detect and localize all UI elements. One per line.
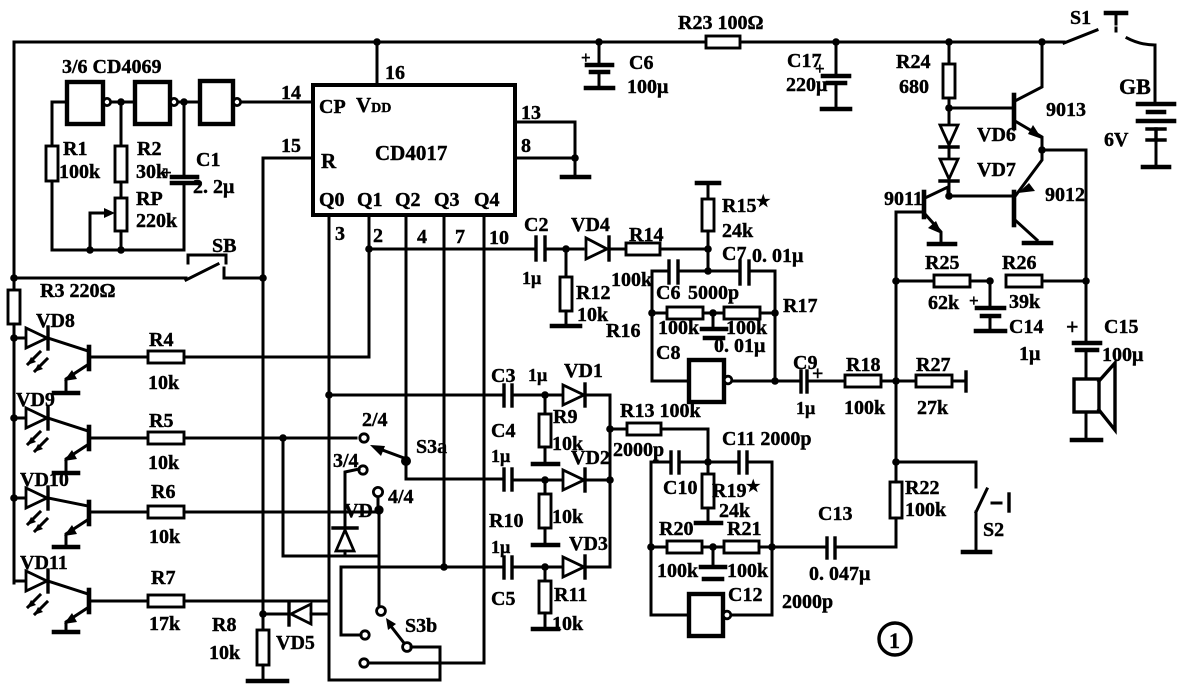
svg-text:VD1: VD1 <box>564 360 603 382</box>
transistor 9011 <box>884 187 955 244</box>
svg-text:6V: 6V <box>1104 129 1129 151</box>
svg-text:C4: C4 <box>491 420 515 442</box>
resistor R24 <box>945 38 953 46</box>
svg-text:220μ: 220μ <box>786 74 828 96</box>
svg-text:R4: R4 <box>149 329 173 351</box>
twin-T 2 top line <box>651 461 668 464</box>
svg-text:VD9: VD9 <box>16 389 55 411</box>
capacitor C10 <box>669 452 672 473</box>
wire C4 line capacitor C4 <box>502 469 505 490</box>
twin-T2 left edge <box>650 462 653 615</box>
svg-text:C3: C3 <box>491 365 515 387</box>
wire C5 line <box>341 566 501 569</box>
wire Q2 column pin 4 <box>406 215 502 479</box>
svg-text:24k: 24k <box>722 220 754 242</box>
node twin-T2 top <box>704 458 712 466</box>
svg-text:1: 1 <box>889 628 900 653</box>
resistor R8 <box>262 614 265 630</box>
svg-text:VD4: VD4 <box>571 214 610 236</box>
svg-text:+: + <box>1066 314 1079 339</box>
diode VD1 <box>563 385 584 405</box>
svg-text:16: 16 <box>385 62 405 84</box>
svg-text:+: + <box>581 48 591 67</box>
svg-text:R14: R14 <box>629 224 663 246</box>
diode VD6 <box>948 108 951 125</box>
svg-text:0. 01μ: 0. 01μ <box>714 335 766 357</box>
svg-text:Q1: Q1 <box>357 189 383 211</box>
svg-text:17k: 17k <box>149 613 181 635</box>
svg-text:+: + <box>162 163 172 182</box>
wire top supply rail <box>14 41 706 44</box>
capacitor C9 <box>775 380 798 383</box>
resistor R21 <box>702 546 724 549</box>
svg-text:2: 2 <box>373 225 383 247</box>
svg-text:R22: R22 <box>905 477 939 499</box>
node inverter1 output <box>117 98 125 106</box>
resistor R2 <box>120 102 123 146</box>
svg-text:S1: S1 <box>1070 7 1091 29</box>
node twin-T2 middle <box>709 543 717 551</box>
diode VD4 <box>586 238 607 259</box>
wire C2 line <box>369 248 533 251</box>
wire R24 to 9013 base <box>949 107 1012 110</box>
diode VD3 <box>563 557 584 577</box>
svg-text:1μ: 1μ <box>796 398 815 418</box>
node R13 tap <box>606 425 614 433</box>
twin-T1 left edge <box>651 271 654 381</box>
svg-text:+: + <box>969 291 979 310</box>
diode VD5 <box>259 603 329 654</box>
transistor Q-VD9 <box>48 418 89 473</box>
figure number 1 <box>879 623 911 655</box>
diode VD <box>333 526 357 529</box>
wire Q1 column pin 2 <box>368 215 371 357</box>
svg-text:C11 2000p: C11 2000p <box>722 428 811 450</box>
svg-text:S2: S2 <box>983 519 1004 541</box>
svg-text:VD6: VD6 <box>977 124 1016 146</box>
svg-text:R17: R17 <box>783 295 817 317</box>
svg-text:1μ: 1μ <box>522 268 541 288</box>
pin 16 Vdd wire <box>376 42 379 85</box>
wire inverter3 output to CP pin 14 <box>241 101 313 104</box>
wire VD7 to 9012 base <box>949 195 1013 198</box>
svg-text:4/4: 4/4 <box>388 486 414 508</box>
resistor R13 <box>610 428 627 431</box>
svg-text:5000p: 5000p <box>688 282 739 304</box>
wire top rail right of R23 <box>740 41 1064 44</box>
svg-text:R19★: R19★ <box>712 479 760 502</box>
svg-text:VD7: VD7 <box>977 159 1016 181</box>
capacitor C1 <box>183 102 186 176</box>
node RP bottom <box>117 246 125 254</box>
pin 13 wire <box>515 122 575 158</box>
inverter amp U2a <box>689 360 724 402</box>
node Q3 to C5 <box>440 563 448 571</box>
svg-text:R5: R5 <box>149 410 173 432</box>
svg-text:VDD: VDD <box>356 93 391 117</box>
node Q0 to C3 line <box>325 391 333 399</box>
capacitor C11 <box>737 452 740 473</box>
LED VD11 <box>14 552 68 615</box>
node pin15-SB <box>259 274 267 282</box>
resistor R23 <box>706 36 740 48</box>
resistor R15 <box>697 183 770 271</box>
capacitor C6 5000p <box>667 261 670 283</box>
resistor R7 <box>91 600 148 603</box>
diode VD7 <box>940 159 958 179</box>
svg-text:R2: R2 <box>137 138 161 160</box>
svg-text:GB: GB <box>1119 74 1151 99</box>
svg-text:VD8: VD8 <box>36 310 75 332</box>
resistor R18 <box>810 380 845 383</box>
node SB junction on rail <box>10 274 18 282</box>
svg-text:2000p: 2000p <box>613 439 664 461</box>
resistor R26 <box>1006 275 1042 287</box>
wire 9011 base column <box>895 212 898 462</box>
wire Q3 column pin 7 <box>443 215 446 567</box>
svg-text:CP: CP <box>319 96 346 118</box>
svg-text:CD4017: CD4017 <box>375 141 447 165</box>
resistor R16 <box>652 312 667 315</box>
wire Q4 column pin 10 <box>368 215 484 663</box>
svg-text:C8: C8 <box>656 342 680 364</box>
svg-text:680: 680 <box>899 76 929 98</box>
svg-text:VD3: VD3 <box>569 533 608 555</box>
ground below pin 8 <box>574 158 577 175</box>
inverter gate 2 of CD4069 <box>135 82 170 124</box>
svg-text:100k: 100k <box>844 397 886 419</box>
svg-text:C2: C2 <box>524 214 548 236</box>
svg-text:RP: RP <box>136 188 163 210</box>
battery GB 6V <box>1104 74 1174 167</box>
node R12 top <box>562 245 570 253</box>
node R24 bottom <box>945 104 953 112</box>
node R14-R15 <box>704 245 712 253</box>
twin-T2 right edge <box>771 462 774 615</box>
resistor R3 <box>13 278 16 290</box>
capacitor C15 <box>1066 281 1144 379</box>
svg-text:R6: R6 <box>151 481 175 503</box>
push button SB <box>186 235 236 280</box>
transistor 9012 <box>1014 150 1085 243</box>
svg-text:0. 047μ: 0. 047μ <box>809 563 871 585</box>
svg-text:R26: R26 <box>1002 252 1036 274</box>
twin-T 1 top line <box>652 270 666 273</box>
resistor R6 <box>91 511 148 514</box>
wire R5 branch column <box>279 434 287 442</box>
svg-text:R10: R10 <box>489 510 523 532</box>
svg-text:C12: C12 <box>728 584 762 606</box>
svg-text:C17: C17 <box>787 50 821 72</box>
svg-text:S3a: S3a <box>416 436 447 458</box>
svg-text:VD: VD <box>344 500 373 522</box>
resistor R20 <box>651 546 667 549</box>
diode VD2 <box>563 470 584 490</box>
capacitor C5 <box>502 557 505 578</box>
capacitor C3 <box>502 385 505 406</box>
svg-text:R16: R16 <box>606 320 640 342</box>
capacitor C6 at supply <box>581 38 669 98</box>
svg-text:VD11: VD11 <box>20 552 68 574</box>
resistor R11 <box>544 567 547 581</box>
switch S2 <box>896 462 1009 552</box>
svg-text:R23 100Ω: R23 100Ω <box>678 12 763 34</box>
svg-text:10: 10 <box>489 227 509 249</box>
node R11 top <box>541 563 549 571</box>
switch S3b <box>360 607 437 668</box>
inverter gate 3 of CD4069 <box>200 81 233 124</box>
wire S3b pole to bottom <box>329 647 440 680</box>
resistor R25 <box>896 280 934 283</box>
svg-text:C6: C6 <box>656 282 680 304</box>
resistor R5 <box>91 437 148 440</box>
svg-text:R24: R24 <box>896 51 930 73</box>
switch S3a <box>333 409 447 508</box>
svg-text:220k: 220k <box>136 210 178 232</box>
svg-text:0. 01μ: 0. 01μ <box>752 245 804 267</box>
svg-text:39k: 39k <box>1009 291 1041 313</box>
svg-text:10k: 10k <box>209 642 241 664</box>
svg-text:4: 4 <box>417 226 427 248</box>
wire inverter2 to inverter3 <box>178 101 200 104</box>
LED VD8 <box>10 310 75 372</box>
transistor Q-VD10 <box>48 498 89 547</box>
svg-text:100μ: 100μ <box>627 76 669 98</box>
svg-text:Q4: Q4 <box>474 189 500 211</box>
svg-text:10k: 10k <box>552 613 584 635</box>
pin 15 R wire <box>263 158 313 278</box>
svg-text:1μ: 1μ <box>528 365 547 385</box>
svg-text:100μ: 100μ <box>1102 344 1144 366</box>
twin-T2 bottom line <box>651 614 689 617</box>
svg-text:3: 3 <box>335 223 345 245</box>
IC U1 CD4017 <box>313 85 515 215</box>
svg-text:R12: R12 <box>576 282 610 304</box>
wire inverter1 to inverter2 <box>111 101 135 104</box>
node speaker column <box>1082 277 1090 285</box>
potentiometer RP <box>115 198 127 231</box>
svg-text:VD5: VD5 <box>276 632 315 654</box>
svg-text:SB: SB <box>212 235 236 257</box>
svg-text:R27: R27 <box>916 354 950 376</box>
node Q1 to C2 line <box>365 245 373 253</box>
svg-text:Q3: Q3 <box>434 189 460 211</box>
node 4of4 contact junction <box>377 497 380 506</box>
svg-text:10k: 10k <box>148 372 180 394</box>
wire S3b middle contact to C5 line <box>341 567 361 635</box>
resistor R14 <box>626 243 660 255</box>
svg-text:15: 15 <box>281 135 301 157</box>
capacitor C13 <box>772 546 824 549</box>
wire 4of4 down to S3b top <box>378 510 381 606</box>
svg-text:9012: 9012 <box>1045 184 1085 206</box>
svg-text:C10: C10 <box>663 477 697 499</box>
svg-text:100k: 100k <box>657 560 699 582</box>
capacitor C8 <box>712 313 715 327</box>
svg-text:2000p: 2000p <box>782 591 833 613</box>
resistor R22 <box>890 482 902 518</box>
node C13 line <box>768 543 776 551</box>
svg-text:100k: 100k <box>727 560 769 582</box>
svg-text:Q2: Q2 <box>395 189 421 211</box>
svg-text:C15: C15 <box>1104 316 1138 338</box>
node twin-T1 top <box>704 267 712 275</box>
svg-text:10k: 10k <box>149 526 181 548</box>
svg-text:100k: 100k <box>611 269 653 291</box>
node center column at R18 <box>892 377 900 385</box>
capacitor C14 <box>969 281 1043 365</box>
twin-T1 right edge <box>774 271 777 381</box>
resistor R12 <box>565 249 568 277</box>
svg-text:62k: 62k <box>928 292 960 314</box>
pin 8 wire <box>515 157 575 160</box>
resistor R19 <box>707 462 710 474</box>
node R10 top <box>541 476 549 484</box>
node twin-T1 middle <box>709 309 717 317</box>
switch S1 <box>1064 7 1155 102</box>
svg-text:R9: R9 <box>553 406 577 428</box>
LED VD10 <box>10 469 69 532</box>
svg-text:1μ: 1μ <box>1019 343 1041 365</box>
node RP wiper to bottom <box>86 246 94 254</box>
svg-text:R8: R8 <box>212 614 236 636</box>
svg-text:100k: 100k <box>658 317 700 339</box>
svg-text:9011: 9011 <box>884 188 923 210</box>
resistor R27 <box>916 375 952 387</box>
svg-text:9013: 9013 <box>1046 99 1086 121</box>
svg-text:Q0: Q0 <box>319 189 345 211</box>
svg-text:1μ: 1μ <box>491 446 510 466</box>
svg-text:R13 100k: R13 100k <box>620 400 701 422</box>
svg-text:14: 14 <box>281 82 301 104</box>
wire oscillator bottom <box>52 249 184 252</box>
svg-text:10k: 10k <box>577 304 609 326</box>
svg-text:2. 2μ: 2. 2μ <box>193 176 235 198</box>
wire 3of4 contact to VD <box>345 469 359 527</box>
node R9 top <box>541 391 549 399</box>
node emitters 9013-9012 <box>1038 146 1046 154</box>
transistor Q-VD11 <box>48 581 89 632</box>
wire pin15 column down <box>262 278 265 614</box>
svg-text:C5: C5 <box>491 588 515 610</box>
svg-text:R25: R25 <box>925 252 959 274</box>
resistor R4 <box>91 356 148 359</box>
svg-text:R18: R18 <box>846 354 880 376</box>
wire SB line left <box>14 277 186 280</box>
resistor R10 <box>544 480 547 494</box>
wire left supply rail <box>13 42 16 278</box>
svg-text:VD10: VD10 <box>20 469 69 491</box>
wire C3 line <box>329 394 501 397</box>
capacitor C12 <box>712 547 715 565</box>
resistor R9 <box>544 395 547 414</box>
node base column at R25 line <box>892 277 900 285</box>
svg-text:R21: R21 <box>727 518 761 540</box>
twin-T1 bottom line <box>652 380 689 383</box>
svg-text:R: R <box>321 149 337 173</box>
node inverter2 output <box>180 98 188 106</box>
svg-text:13: 13 <box>521 102 541 124</box>
speaker <box>1072 363 1115 440</box>
wire emitter node to right column <box>1042 150 1086 281</box>
capacitor C17 <box>786 38 850 109</box>
node C14 top <box>986 277 994 285</box>
capacitor C7 <box>738 261 741 284</box>
svg-text:R1: R1 <box>63 138 87 160</box>
svg-text:R7: R7 <box>151 567 175 589</box>
node VD7 bottom <box>945 192 953 200</box>
svg-text:7: 7 <box>455 226 465 248</box>
svg-text:R11: R11 <box>554 584 587 606</box>
transistor Q-VD8 <box>48 338 89 393</box>
svg-text:2/4: 2/4 <box>362 409 388 431</box>
transistor 9013 <box>1014 38 1086 150</box>
svg-text:C6: C6 <box>629 52 653 74</box>
svg-text:1μ: 1μ <box>491 537 510 557</box>
wire Q0 column pin 3 <box>328 215 331 680</box>
wire diode collecting column <box>609 395 612 567</box>
svg-text:10k: 10k <box>148 452 180 474</box>
svg-text:R15★: R15★ <box>722 194 770 217</box>
resistor R17 <box>703 312 724 315</box>
svg-text:C14: C14 <box>1009 316 1043 338</box>
svg-text:100k: 100k <box>905 499 947 521</box>
svg-text:S3b: S3b <box>405 615 437 637</box>
capacitor C2 <box>534 237 537 260</box>
svg-text:27k: 27k <box>917 397 949 419</box>
svg-text:100k: 100k <box>59 161 101 183</box>
node R22 top <box>892 458 900 466</box>
svg-text:R20: R20 <box>659 518 693 540</box>
svg-text:3/6 CD4069: 3/6 CD4069 <box>62 56 161 78</box>
wire inverter1 input <box>52 101 67 104</box>
inverter gate 1 of CD4069 <box>67 82 103 124</box>
svg-text:C1: C1 <box>196 149 220 171</box>
svg-text:8: 8 <box>521 135 531 157</box>
svg-text:VD2: VD2 <box>571 447 610 469</box>
node pins 8-13 join <box>571 154 579 162</box>
inverter amp U2b <box>689 594 723 636</box>
svg-text:C13: C13 <box>818 503 852 525</box>
svg-text:C7: C7 <box>722 243 746 265</box>
LED VD9 <box>10 389 55 452</box>
svg-text:R3 220Ω: R3 220Ω <box>40 280 115 302</box>
wire SB to pin15 column <box>226 277 263 280</box>
svg-text:10k: 10k <box>552 506 584 528</box>
resistor R1 <box>51 102 54 146</box>
